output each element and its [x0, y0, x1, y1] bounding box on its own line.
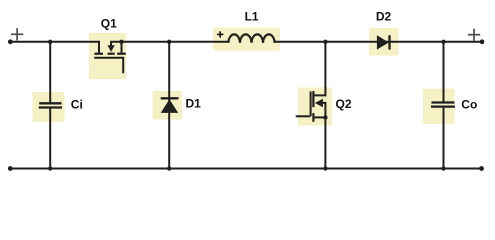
svg-text:Q2: Q2: [335, 97, 351, 111]
transistor Q2: [296, 42, 326, 169]
svg-text:L1: L1: [245, 10, 259, 24]
node D1 bottom junction: [167, 166, 171, 170]
svg-text:Co: Co: [461, 97, 477, 111]
highlight box L1: [213, 28, 280, 51]
svg-text:Ci: Ci: [71, 97, 83, 111]
svg-text:D1: D1: [186, 97, 202, 111]
capacitor Ci: [39, 42, 62, 169]
wire bottom rail: [10, 168, 481, 170]
+ output terminal mark: [468, 29, 480, 41]
highlight box Co: [423, 89, 455, 125]
highlight box Q2: [298, 88, 332, 126]
+ input terminal mark: [11, 28, 23, 40]
capacitor Co: [431, 42, 455, 169]
highlight box D1: [153, 91, 183, 120]
+ polarity mark at L1: [217, 31, 223, 37]
diode D2: [377, 35, 390, 49]
highlight box Ci: [33, 92, 65, 122]
node Ci top junction: [48, 40, 52, 44]
svg-text:D2: D2: [376, 10, 392, 24]
node Co bottom junction: [441, 166, 445, 170]
node D1 top junction: [167, 40, 171, 44]
node Q2 source junction: [323, 115, 327, 119]
wire top rail left segment with Q1 source drop: [10, 42, 99, 53]
wire top rail right segment (L1 to output terminal): [274, 41, 482, 43]
node Q2 drain junction: [323, 40, 327, 44]
diode D1: [161, 42, 179, 169]
node Q2 bottom junction: [323, 166, 327, 170]
transistor Q1: [94, 42, 126, 73]
wire top rail middle segment (Q1 drain to L1): [122, 41, 229, 43]
node Ci bottom junction: [48, 166, 52, 170]
node input + terminal dot: [8, 39, 13, 44]
node output + terminal dot: [480, 39, 485, 44]
inductor L1: [228, 34, 274, 42]
node Co top junction: [441, 40, 445, 44]
highlight box D2: [369, 28, 399, 56]
node input - terminal dot: [8, 166, 13, 171]
svg-text:Q1: Q1: [101, 16, 117, 30]
highlight box Q1: [89, 33, 126, 79]
node output - terminal dot: [479, 166, 484, 171]
node Q1 drain junction: [119, 40, 123, 44]
